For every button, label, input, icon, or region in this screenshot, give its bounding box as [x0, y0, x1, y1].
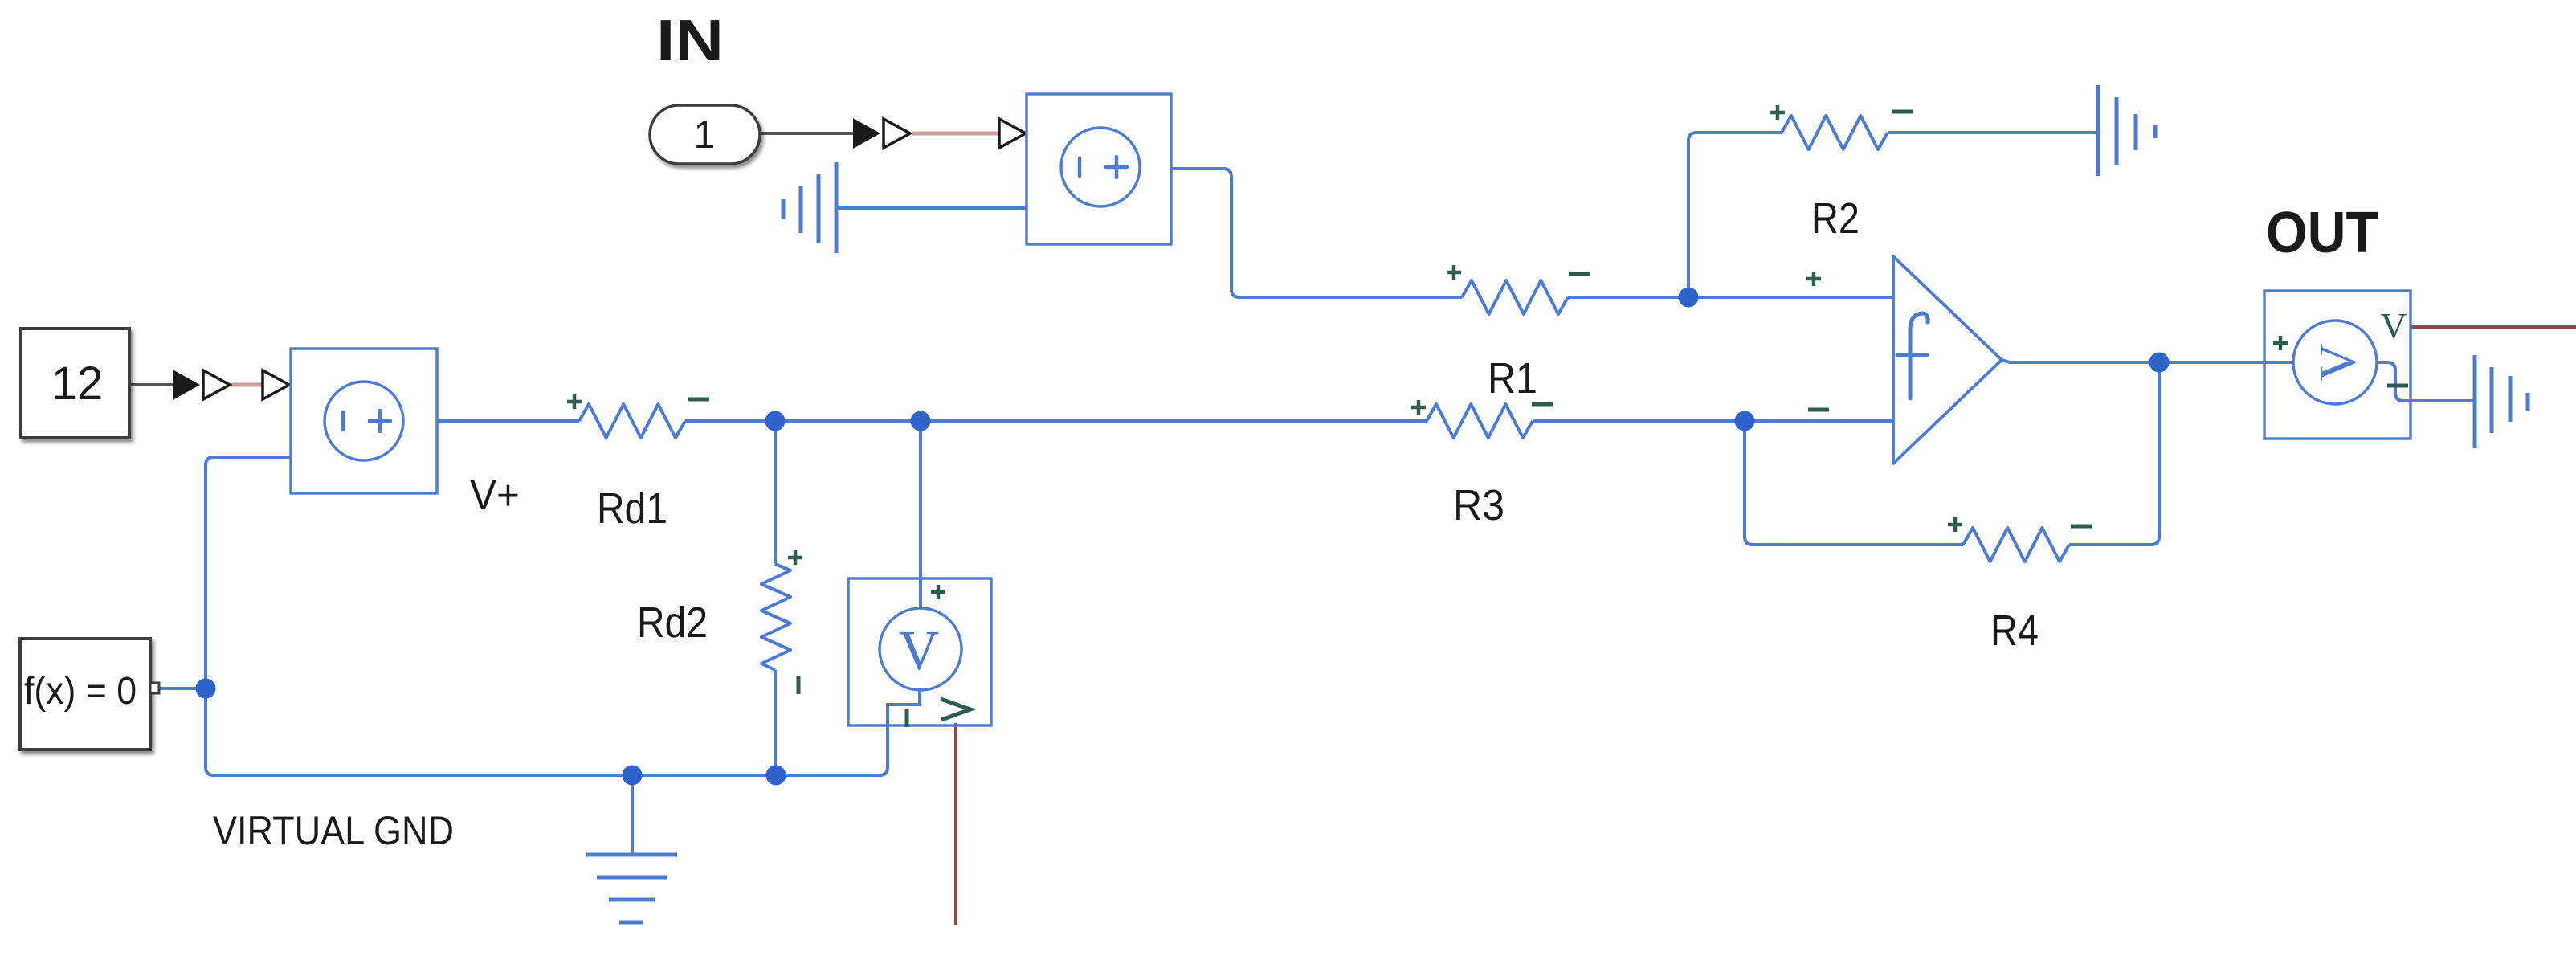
svg-text:1: 1: [694, 114, 716, 157]
svg-text:R1: R1: [1488, 354, 1537, 402]
svg-text:IN: IN: [656, 9, 724, 73]
svg-text:R3: R3: [1453, 481, 1504, 529]
svg-text:12: 12: [51, 357, 104, 410]
svg-text:Rd2: Rd2: [637, 599, 708, 647]
svg-text:V: V: [899, 620, 940, 682]
svg-text:V+: V+: [470, 472, 520, 519]
svg-text:R2: R2: [1811, 194, 1860, 243]
svg-text:OUT: OUT: [2266, 201, 2378, 265]
svg-text:VIRTUAL GND: VIRTUAL GND: [213, 808, 454, 853]
svg-text:Rd1: Rd1: [597, 484, 667, 533]
svg-text:V: V: [2380, 305, 2407, 346]
svg-text:f(x) = 0: f(x) = 0: [24, 670, 137, 713]
svg-text:R4: R4: [1990, 607, 2039, 655]
svg-text:V: V: [2309, 343, 2367, 382]
